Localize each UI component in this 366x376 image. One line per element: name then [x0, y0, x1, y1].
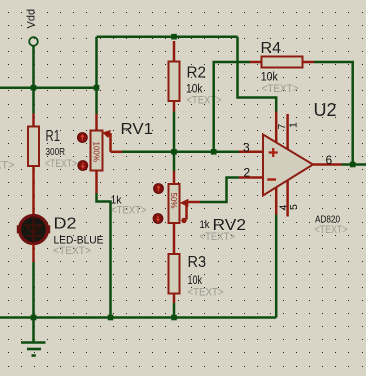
- svg-text:<TEXT>: <TEXT>: [200, 231, 236, 243]
- wire ground rail: [0, 316, 276, 319]
- text placeholder RV1: [111, 205, 147, 217]
- svg-text:50%: 50%: [169, 193, 178, 209]
- pin 5 line: [286, 181, 289, 217]
- wire R4 left branch: [214, 62, 250, 152]
- wire Vdd rail y=88: [0, 86, 97, 89]
- value 1k RV1: [111, 195, 122, 207]
- value 10k R4: [261, 72, 278, 84]
- value 10k R3: [188, 275, 203, 287]
- svg-text:<TEXT>: <TEXT>: [262, 83, 299, 95]
- pin 6 line: [313, 163, 342, 166]
- value 300R: [46, 146, 66, 158]
- wire RV2 branch: [173, 152, 176, 171]
- junction at (33.5,88): [31, 85, 37, 91]
- potentiometer RV1: [91, 131, 103, 171]
- wire RV1 bottom jog to ground rail: [97, 193, 111, 318]
- svg-text:1k: 1k: [200, 219, 210, 231]
- value 1k RV2: [200, 219, 210, 231]
- svg-text:R2: R2: [187, 65, 207, 82]
- resistor R1: [28, 127, 39, 167]
- pin R4 right: [303, 61, 315, 64]
- wire R1 branch green: [32, 88, 35, 114]
- pin R1 bottom to D2: [32, 166, 35, 215]
- wire output node: [342, 163, 366, 166]
- svg-text:1: 1: [288, 122, 300, 128]
- label RV2: [213, 217, 247, 234]
- junction at (174,152): [171, 149, 177, 155]
- label R2: [187, 65, 207, 82]
- wire R4 right to output node: [314, 62, 353, 165]
- svg-text:RV1: RV1: [121, 121, 154, 138]
- svg-text:R4: R4: [261, 40, 282, 57]
- pin R3 bottom: [173, 294, 176, 304]
- wire R2 bottom to node: [173, 112, 176, 152]
- pin 3 number: [243, 141, 250, 155]
- ground symbol: [21, 318, 46, 356]
- label R3: [188, 254, 207, 271]
- resistor R3: [169, 254, 180, 294]
- svg-text:300R: 300R: [46, 146, 66, 158]
- svg-text:<TEXT>: <TEXT>: [187, 95, 222, 107]
- junction at (96.5,88): [94, 85, 100, 91]
- label R4: [261, 40, 282, 57]
- wire D2 to ground rail: [32, 262, 35, 318]
- pin 4 number: [277, 205, 289, 211]
- text placeholder RV2: [200, 231, 236, 243]
- pin R1 top: [32, 114, 35, 128]
- svg-text:10k: 10k: [261, 72, 278, 84]
- RV2 wiper arrow: [180, 199, 200, 224]
- RV2 down button: [153, 214, 163, 224]
- pin D2 bottom: [32, 244, 35, 263]
- text placeholder R4: [262, 83, 299, 95]
- value AD820: [315, 215, 340, 226]
- RV2 up button: [154, 184, 164, 194]
- resistor R2: [169, 62, 180, 102]
- pin R2 bottom: [173, 101, 176, 112]
- text placeholder R3: [188, 287, 224, 299]
- pin R4 left: [250, 61, 262, 64]
- svg-text:<TEXT>: <TEXT>: [188, 287, 224, 299]
- pin 7 number: [276, 124, 288, 130]
- svg-text:<TEXT>: <TEXT>: [53, 245, 91, 257]
- pin RV2 bottom to R3: [173, 223, 176, 255]
- value LED-BLUE: [54, 235, 104, 247]
- svg-text:D2: D2: [54, 216, 77, 233]
- pin 3 line: [239, 151, 263, 154]
- label D2: [54, 216, 77, 233]
- svg-text:<TEXT>: <TEXT>: [111, 205, 147, 217]
- label R1: [46, 128, 61, 145]
- text placeholder D2: [53, 245, 91, 257]
- pin 5 number: [288, 204, 300, 210]
- wire pin4 to ground rail: [275, 215, 278, 318]
- wire pin2 to RV2 wiper: [200, 178, 239, 203]
- pin 2 number: [244, 166, 251, 180]
- svg-text:3: 3: [243, 141, 250, 155]
- junction at (352.7,164.5): [350, 162, 356, 168]
- resistor R4: [262, 57, 303, 68]
- pin 7 line: [275, 112, 278, 144]
- text placeholder R2: [187, 95, 222, 107]
- clipped text placeholder at left edge: [0, 160, 15, 172]
- pin 1 line: [286, 114, 289, 150]
- RV1 up button: [77, 133, 87, 143]
- junction at (110.5,317.5): [108, 315, 114, 321]
- wire node y=152: [122, 151, 239, 154]
- label Vdd: [26, 9, 38, 29]
- label U2: [314, 100, 337, 120]
- svg-text:Vdd: Vdd: [26, 9, 38, 29]
- svg-text:U2: U2: [314, 100, 337, 120]
- label RV1: [121, 121, 154, 138]
- junction at (174,37): [171, 34, 177, 40]
- power terminal Vdd: [29, 37, 38, 46]
- svg-text:<TEXT>: <TEXT>: [45, 158, 77, 170]
- wire R3 to ground rail: [173, 303, 176, 318]
- text placeholder U2: [315, 224, 348, 236]
- svg-text:7: 7: [276, 124, 288, 130]
- LED D2: [17, 216, 50, 244]
- value 10k R2: [186, 84, 203, 96]
- wire top rail y=37: [97, 35, 238, 38]
- pin 6 number: [326, 153, 333, 167]
- text placeholder R1: [45, 158, 77, 170]
- pin RV1 bottom: [95, 171, 98, 194]
- pin RV2 top: [173, 171, 176, 185]
- pin 4 line: [275, 188, 278, 215]
- svg-text:10k: 10k: [188, 275, 203, 287]
- pin R2 top: [173, 41, 176, 62]
- wire Vdd terminal drop: [32, 46, 35, 89]
- junction at (213.7,152): [211, 149, 217, 155]
- pin 1 number: [288, 122, 300, 128]
- potentiometer RV2: [169, 184, 180, 223]
- svg-text:R1: R1: [46, 128, 61, 145]
- pin 2 line: [239, 176, 263, 179]
- RV1 down button: [78, 161, 88, 171]
- svg-text:2: 2: [244, 166, 251, 180]
- junction at (33.5,317.5): [31, 315, 37, 321]
- op-amp U2: [263, 135, 313, 196]
- svg-text:5: 5: [288, 204, 300, 210]
- pin RV1 top: [95, 114, 98, 131]
- RV1 wiper arrow: [102, 130, 122, 152]
- wire op-amp power branch: [238, 37, 277, 112]
- junction at (174,317.5): [171, 315, 177, 321]
- svg-text:100%: 100%: [92, 142, 101, 162]
- svg-text:6: 6: [326, 153, 333, 167]
- svg-text:R3: R3: [188, 254, 207, 271]
- wire RV1 branch from corner: [95, 37, 98, 114]
- svg-text:<TEXT>: <TEXT>: [315, 224, 348, 236]
- svg-text:<TEXT>: <TEXT>: [0, 160, 15, 172]
